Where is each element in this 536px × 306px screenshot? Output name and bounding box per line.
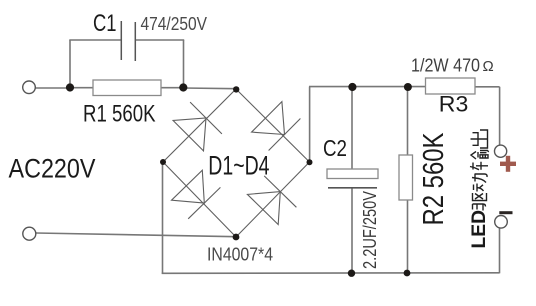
- svg-text:R1 560K: R1 560K: [83, 101, 156, 128]
- svg-text:R2 560K: R2 560K: [418, 132, 450, 226]
- svg-text:R3: R3: [439, 92, 469, 117]
- svg-text:Ω: Ω: [483, 58, 494, 75]
- svg-text:D1~D4: D1~D4: [208, 151, 269, 181]
- svg-text:474/250V: 474/250V: [141, 14, 208, 34]
- svg-text:2.2UF/250V: 2.2UF/250V: [360, 191, 380, 269]
- svg-text:IN4007*4: IN4007*4: [207, 244, 273, 264]
- svg-text:1/2W 470: 1/2W 470: [411, 55, 480, 76]
- svg-text:C1: C1: [93, 10, 117, 37]
- svg-text:C2: C2: [323, 135, 347, 161]
- svg-text:AC220V: AC220V: [9, 154, 96, 184]
- svg-text:LED: LED: [468, 210, 490, 249]
